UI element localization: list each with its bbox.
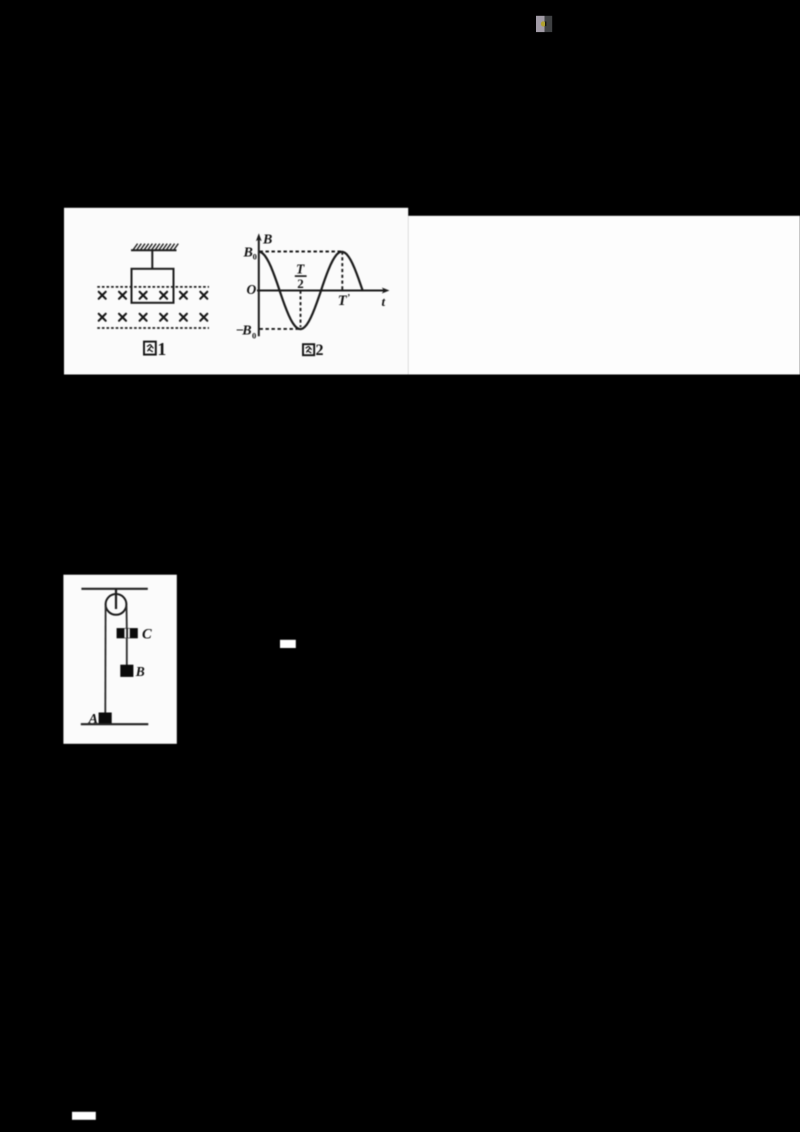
- svg-text:0: 0: [252, 331, 256, 341]
- flux crosses row 2: [99, 314, 208, 321]
- caption 图1 : hand-drawn 图 glyph: [144, 342, 156, 355]
- pulley support rod: [115, 589, 117, 609]
- block C (with rope slot): [117, 628, 138, 638]
- flux crosses row 1: [99, 292, 208, 299]
- top-center tiny window icon: dark pane: [545, 16, 553, 32]
- conducting block (open rectangle): [132, 269, 174, 303]
- suspension rod: [151, 250, 153, 269]
- caption 图2 : hand-drawn 图 glyph: [303, 344, 314, 355]
- mid-page small white cursor bar: [280, 640, 296, 648]
- block A: [99, 713, 112, 724]
- svg-text:2: 2: [316, 342, 324, 359]
- right rope (pulley to block C): [126, 606, 128, 628]
- svg-text:C: C: [142, 626, 152, 642]
- top-center tiny window icon: yellow dot: [541, 21, 546, 26]
- B axis (vertical) with arrow: [256, 233, 390, 336]
- svg-text:t: t: [382, 294, 386, 309]
- svg-text:2: 2: [297, 276, 304, 291]
- svg-text:T: T: [296, 262, 305, 277]
- bottom-left small white bar: [72, 1112, 96, 1120]
- figure 1 white paper (right strip to page edge): [408, 216, 800, 375]
- figure 1 white paper (left, taller part): [64, 208, 408, 375]
- sinusoid B(t)=B0·cos(2πt/T): [259, 252, 363, 329]
- ceiling hatching: [133, 244, 178, 250]
- svg-text:0: 0: [253, 252, 257, 262]
- top-center tiny window icon: light pane: [536, 16, 545, 32]
- t axis (horizontal) with arrow: [257, 290, 385, 292]
- field boundary dashed line (upper): [97, 286, 209, 288]
- dashed guide: vertical at t=T: [341, 252, 343, 291]
- svg-text:1: 1: [158, 339, 167, 359]
- dashed guide: +B0 horizontal: [260, 251, 343, 253]
- ceiling line: [81, 588, 147, 590]
- svg-text:B: B: [243, 246, 253, 261]
- dashed guide: vertical at t=T/2: [300, 291, 302, 328]
- block B: [120, 665, 133, 677]
- svg-text:B: B: [241, 324, 251, 339]
- svg-text:O: O: [247, 282, 257, 297]
- svg-text:B: B: [262, 232, 272, 247]
- field boundary dashed line (lower): [97, 327, 209, 329]
- rope (block C to block B): [126, 638, 128, 665]
- dashed guide: -B0 horizontal: [260, 328, 301, 330]
- ground line: [81, 723, 149, 725]
- svg-text:B: B: [135, 664, 145, 679]
- ceiling line: [131, 249, 177, 251]
- top-center tiny window icon: dark notch: [545, 22, 546, 27]
- svg-text:’: ’: [347, 293, 350, 303]
- pulley wheel: [106, 594, 127, 615]
- left rope (pulley to block A): [104, 606, 106, 713]
